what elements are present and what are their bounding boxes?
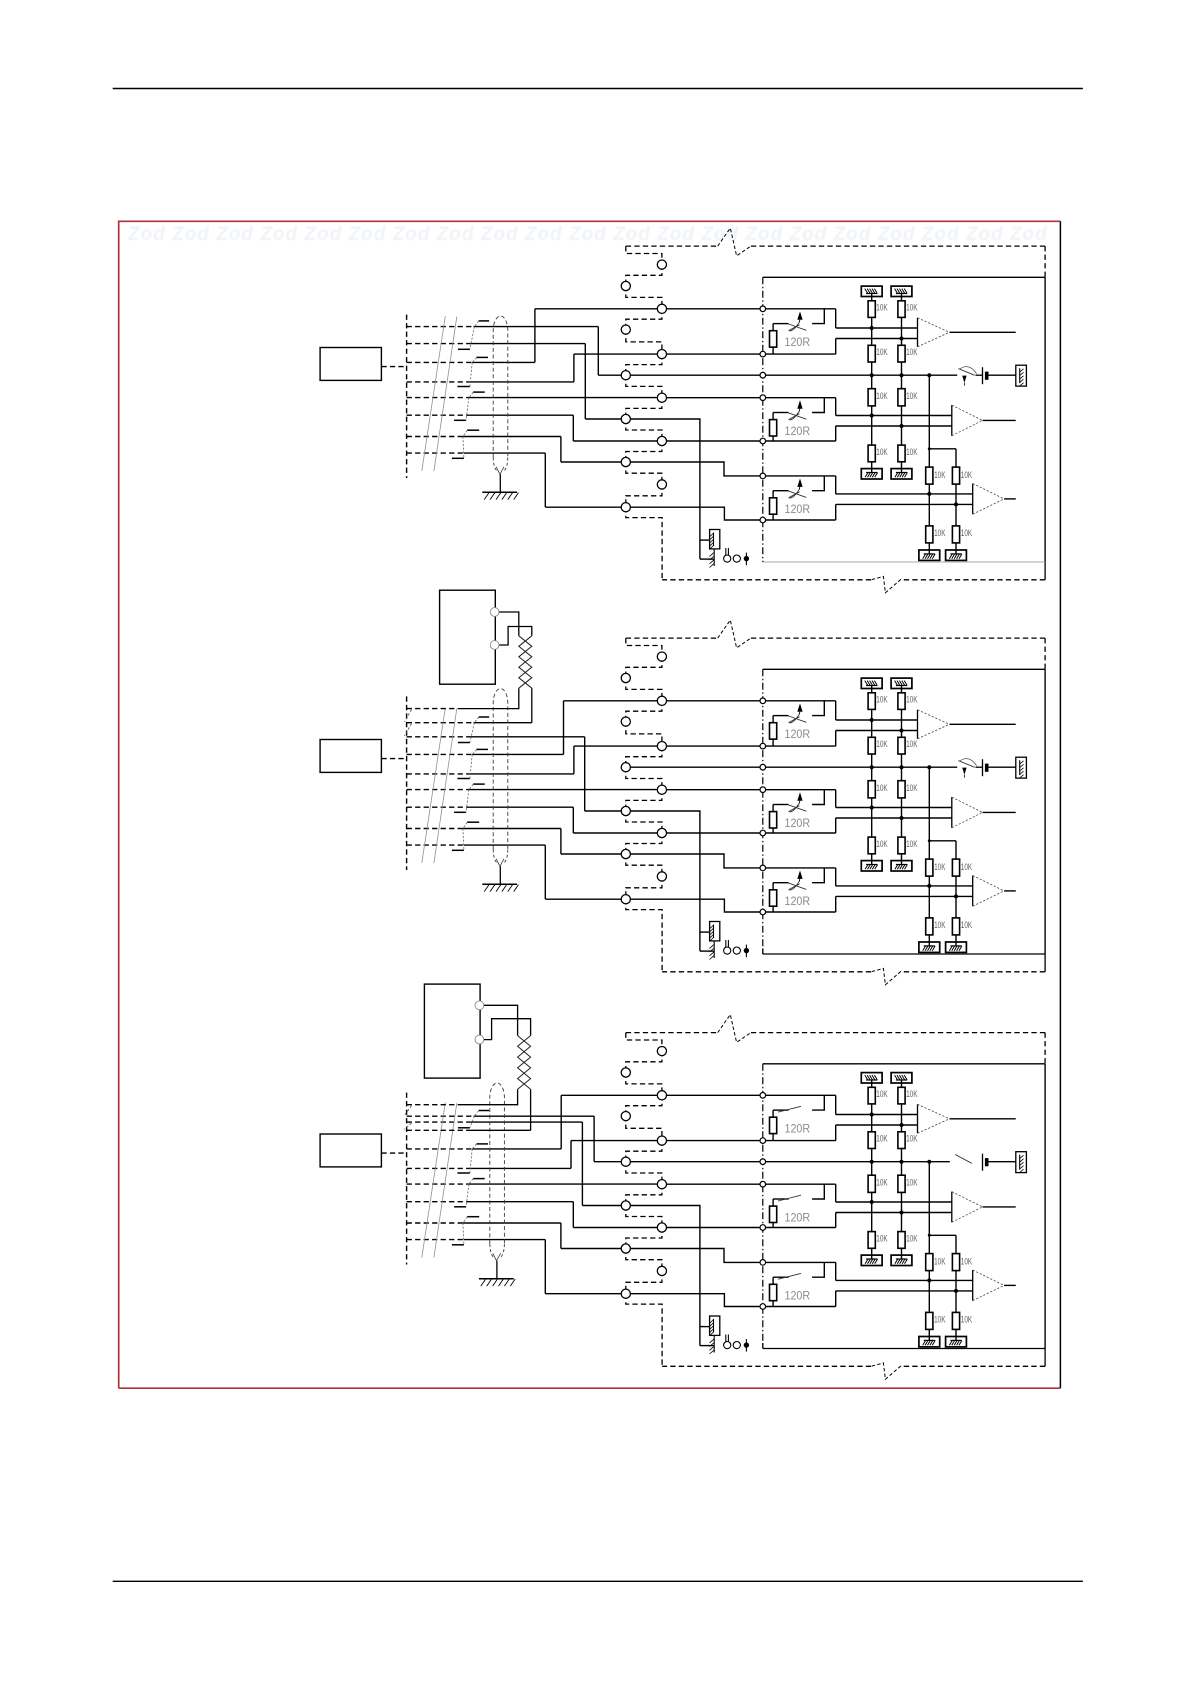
protective earth electrode [713,549,715,567]
wire pin R1 to receiver [666,1094,836,1096]
resistor 10K b [868,1132,875,1149]
wire w4 from connector [407,381,471,383]
ground [891,861,912,871]
wire w1 from connector [407,722,474,724]
receiver input circles [760,698,766,704]
terminator 120R unit 2 [812,790,824,805]
connector contact pair 3 [473,1178,485,1180]
wire w4 from connector [407,1167,471,1169]
terminator 120R unit 1 [812,309,824,324]
switch blade 120R 1 [789,324,807,330]
connection point (black) [745,945,747,958]
svg-text:10K: 10K [961,920,973,930]
svg-text:120R: 120R [785,816,811,830]
svg-text:10K: 10K [876,1234,888,1244]
top rule [113,88,1083,90]
wire w3 from connector [407,361,473,363]
frame ground box [1016,1152,1027,1173]
resistor 10K c [868,1175,875,1192]
signal ground wire (middle) [630,766,957,768]
chassis ground box (shield) [700,539,710,541]
signal ground wire (middle) [630,374,957,376]
terminator 120R unit 2 [812,398,824,413]
switch blade 120R 3 [778,1273,801,1279]
op-amp A [917,318,919,347]
resistor 10K e [955,449,957,467]
switch blade 120R 2 [789,413,807,419]
wire pin L3 to shield assembly [630,811,700,951]
resistor 120R 3 [770,1284,777,1300]
resistor 10K d [868,445,875,462]
resistor 120R 2 [770,1206,777,1222]
svg-text:10K: 10K [961,528,973,538]
resistor 120R 3 [770,890,777,906]
wire w6 from connector [407,414,467,416]
op-amp A [917,710,919,739]
wire w3 from connector [407,753,473,755]
terminator 120R unit 2 [812,1184,824,1199]
terminator 120R unit 3 [812,1262,824,1277]
svg-text:10K: 10K [876,739,888,749]
connection point (black) [745,1339,747,1352]
pull-up rail symbol [891,1073,912,1083]
resistor 10K d [898,837,905,854]
terminal circle 2 [733,555,740,562]
svg-text:10K: 10K [876,303,888,313]
svg-text:10K: 10K [876,1089,888,1099]
svg-text:10K: 10K [876,347,888,357]
svg-text:10K: 10K [906,303,918,313]
ground [861,1255,882,1265]
interface dashed border right [1044,638,1046,669]
resistor 10K a [868,693,875,710]
wire w6 from connector [407,1201,467,1203]
amp3 input wires [836,493,973,495]
wire w8 from connector [407,452,464,454]
resistor 10K b [898,345,905,362]
twisted pair leads [484,1005,518,1035]
resistor 120R 2 [770,420,777,436]
wire pin R2 to receiver [666,353,836,355]
wire pin L3 to shield assembly [630,419,700,559]
interface dashed border bottom [902,579,1045,581]
shield ground [496,1261,498,1279]
interface dashed border right [1044,246,1046,277]
ground [919,550,940,560]
switch blade 120R 2 [778,1195,801,1201]
wire w6 from connector [407,806,467,808]
wire w8 from connector [407,1239,464,1241]
protective earth electrode [713,941,715,959]
op-amp B [951,405,953,436]
svg-text:10K: 10K [906,1178,918,1188]
svg-text:120R: 120R [785,1210,811,1224]
resistor 10K e [928,1235,930,1253]
svg-text:10K: 10K [961,862,973,872]
svg-text:10K: 10K [876,695,888,705]
connector pin chain (dashed) [626,1033,662,1052]
connector boundary (dashed vertical) [406,1093,408,1265]
chassis ground box (shield) [700,1326,710,1328]
switch blade 120R 3 [789,491,807,497]
amp3 input wires [836,885,973,887]
interface dashed border right [1044,1033,1046,1064]
resistor 10K f [952,526,959,543]
divider branch from signal ground [928,375,930,449]
svg-text:120R: 120R [785,1122,811,1136]
terminal circle 2 [733,947,740,954]
resistor 10K c [898,389,905,406]
connector boundary (dashed vertical) [406,315,408,478]
wire pin L5 to receiver [630,1294,836,1307]
wire pin R2 to receiver [666,1140,836,1142]
receiver box [763,276,1045,278]
dashed lead from encoder box to connector [381,1152,406,1154]
svg-text:10K: 10K [906,839,918,849]
resistor 10K d [868,1232,875,1249]
frame ground box [1016,365,1027,386]
frame-ground switch [958,761,974,768]
switch blade 120R 3 [789,883,807,889]
svg-text:10K: 10K [876,391,888,401]
resistor 10K f [952,1312,959,1329]
ground [946,550,967,560]
svg-text:10K: 10K [906,739,918,749]
cable shield oval [493,316,508,457]
resistor 10K b [868,345,875,362]
connector contact pair 1 [479,320,489,322]
op-amp B [951,797,953,828]
svg-text:120R: 120R [785,894,811,908]
source terminal 2 [475,1035,484,1044]
pulse source box [424,984,480,1078]
svg-text:10K: 10K [906,1234,918,1244]
amp2 input wires [836,807,952,809]
svg-text:10K: 10K [906,347,918,357]
connector contact pair 1 [479,1110,489,1112]
battery / capacitor symbol [982,759,984,776]
double-bar ground mark [725,940,727,951]
receiver input circles [760,306,766,312]
terminal circle 1 [724,555,731,562]
junction dots ladder [870,1113,874,1117]
svg-text:10K: 10K [961,1315,973,1325]
svg-text:120R: 120R [785,1289,811,1303]
amp2 input wires [836,415,952,417]
terminal circle 1 [724,1342,731,1349]
cable shield oval [493,689,508,850]
resistor 10K c [898,1175,905,1192]
resistor 10K d [898,445,905,462]
wire pin R2 to receiver [666,745,836,747]
frame ground box [1016,757,1027,778]
pull-up rail symbol [891,286,912,296]
wire w1 from connector [407,326,474,328]
svg-text:120R: 120R [785,727,811,741]
wire pin R1 to receiver [666,308,836,310]
resistor 10K c [898,781,905,798]
frame-ground switch [955,1155,972,1164]
wire pin R3 to receiver [666,789,836,791]
wire pin L4 to receiver [630,1249,836,1263]
ground [946,942,967,952]
terminal circle 2 [733,1342,740,1349]
connector contact pair 4 [467,821,479,823]
wire pin R3 to receiver [666,397,836,399]
resistor 120R 1 [770,331,777,347]
connector boundary (dashed vertical) [406,696,408,870]
double-bar ground mark [725,548,727,559]
svg-text:10K: 10K [906,1134,918,1144]
ground [861,861,882,871]
cable slash marks [422,316,446,471]
amp1 input wires [836,327,918,329]
resistor 10K e [955,841,957,859]
svg-text:10K: 10K [961,470,973,480]
resistor 10K a [868,1087,875,1104]
pin circles [657,652,666,661]
frame right edge [1059,221,1061,1388]
resistor 10K b [898,737,905,754]
pair lead to row A [458,1089,518,1104]
cable slash marks [422,708,446,863]
switch blade 120R 1 [778,1106,801,1112]
resistor 10K e [955,1235,957,1253]
svg-text:120R: 120R [785,424,811,438]
connector contact pair 2 [477,1143,489,1145]
svg-text:10K: 10K [906,391,918,401]
wire pin R1 to receiver [666,700,836,702]
connector contact pair 3 [473,391,485,393]
source terminal 2 [490,641,499,650]
wire w5 from connector [407,789,469,791]
pair lead to row B [531,688,533,723]
svg-text:10K: 10K [961,1257,973,1267]
encoder box (block dy=0) [320,348,381,381]
resistor 120R 1 [770,723,777,739]
ground [919,942,940,952]
ground [946,1337,967,1347]
svg-text:10K: 10K [934,920,946,930]
switch blade 120R 2 [789,805,807,811]
svg-text:10K: 10K [876,1178,888,1188]
interface dashed border top [626,1032,718,1034]
battery / capacitor symbol [982,367,984,384]
op-amp Z [972,876,974,907]
connector contact pair 3 [473,783,485,785]
encoder box (block dy=392) [320,740,381,773]
amp3 input wires [836,1279,973,1281]
resistor 10K c [868,389,875,406]
interface dashed border top [626,637,718,639]
bottom rule [113,1580,1083,1582]
receiver box [763,668,1045,670]
connector pin chain (dashed) [626,246,662,265]
pair lead to row B [530,1089,532,1130]
wire w8 from connector [407,844,464,846]
resistor 10K f [952,918,959,935]
wire pin R4 to receiver [666,1227,836,1229]
amp1 input wires [836,1114,918,1116]
wire w3 from connector [407,1148,473,1150]
divider branch from signal ground [928,767,930,841]
row jog marks [405,710,412,722]
resistor 10K a [898,301,905,318]
ground [891,469,912,479]
ground [919,1337,940,1347]
amp1 input wires [836,719,918,721]
connector contact pair 4 [467,429,479,431]
resistor 10K a [898,1087,905,1104]
svg-text:10K: 10K [906,695,918,705]
resistor 10K a [898,693,905,710]
pin circles [657,1047,666,1056]
red frame [119,221,1061,1388]
interface dashed border bottom [902,1365,1045,1367]
wire pin L5 to receiver [630,899,836,912]
svg-text:10K: 10K [906,447,918,457]
protective earth electrode [713,1335,715,1353]
ground [861,469,882,479]
svg-text:10K: 10K [906,1089,918,1099]
terminator 120R unit 1 [812,701,824,716]
svg-text:10K: 10K [934,1315,946,1325]
pulse source box [440,590,496,684]
interface dashed border top [626,245,718,247]
svg-text:10K: 10K [876,839,888,849]
resistor 10K f [926,1312,933,1329]
source terminal 1 [490,608,499,617]
encoder box (block dy=786.5) [320,1134,381,1167]
svg-text:10K: 10K [934,862,946,872]
interface dashed border bottom [902,971,1045,973]
signal ground wire (middle) [630,1161,950,1163]
wire pin R3 to receiver [666,1183,836,1185]
wire w1 from connector [407,1115,474,1117]
receiver input circles [760,1093,766,1099]
op-amp A [917,1104,919,1133]
resistor 120R 1 [770,1117,777,1133]
op-amp Z [972,484,974,515]
wire w7 from connector [407,828,463,830]
resistor 10K b [898,1132,905,1149]
svg-text:10K: 10K [876,447,888,457]
connector pin chain (dashed) [626,638,662,657]
wire w2 from connector [407,343,471,345]
connector contact pair 1 [479,716,489,718]
wire pin L4 to receiver [630,854,836,868]
svg-text:10K: 10K [876,1134,888,1144]
svg-text:10K: 10K [934,470,946,480]
source terminal 1 [475,1001,484,1010]
svg-text:10K: 10K [934,528,946,538]
connector contact pair 2 [477,356,489,358]
dashed lead from encoder box to connector [381,758,406,760]
svg-text:10K: 10K [934,1257,946,1267]
amp2 input wires [836,1201,952,1203]
pull-up rail symbol [861,1073,882,1083]
dashed lead from encoder box to connector [381,366,406,368]
battery / capacitor symbol [982,1154,984,1171]
wire pin L5 to receiver [630,507,836,520]
pull-up rail symbol [861,286,882,296]
twisted pair leads [499,612,519,636]
wire w4 from connector [407,773,471,775]
wire pin R4 to receiver [666,832,836,834]
twisted pair [518,1036,531,1090]
junction dots ladder [870,718,874,722]
resistor 10K d [868,837,875,854]
switch blade 120R 1 [789,716,807,722]
resistor 10K f [926,918,933,935]
chassis ground box (shield) [700,931,710,933]
connector contact pair 4 [467,1216,479,1218]
wire w5 from connector [407,397,469,399]
resistor 120R 3 [770,498,777,514]
resistor 10K c [868,781,875,798]
wire w2 from connector [407,736,471,738]
resistor 10K a [868,301,875,318]
junction dots ladder [870,326,874,330]
op-amp B [951,1192,953,1223]
frame-ground switch [958,369,974,376]
connector contact pair 2 [477,748,489,750]
resistor 120R 2 [770,812,777,828]
divider branch from signal ground [928,1162,930,1236]
shield ground [499,474,501,492]
svg-text:120R: 120R [785,335,811,349]
row jog marks [405,1106,412,1116]
svg-text:10K: 10K [906,783,918,793]
pin circles [657,260,666,269]
pull-up rail symbol [861,678,882,688]
terminal circle 1 [724,947,731,954]
resistor 10K e [928,841,930,859]
terminator 120R unit 3 [812,476,824,491]
wire w7 from connector [407,1222,463,1224]
shield ground [499,866,501,884]
wire w7 from connector [407,436,463,438]
receiver box [763,1063,1045,1065]
twisted pair [519,636,532,688]
wire pin L3 to shield assembly [630,1206,700,1346]
resistor 10K d [898,1232,905,1249]
terminator 120R unit 3 [812,868,824,883]
cable shield oval [490,1083,505,1244]
svg-text:10K: 10K [876,783,888,793]
op-amp Z [972,1270,974,1301]
resistor 10K b [868,737,875,754]
resistor 10K f [926,526,933,543]
wire pin R4 to receiver [666,440,836,442]
ground [891,1255,912,1265]
resistor 10K e [928,449,930,467]
svg-text:120R: 120R [785,502,811,516]
pull-up rail symbol [891,678,912,688]
wire w5 from connector [407,1183,469,1185]
cable slash marks [422,1103,446,1258]
double-bar ground mark [725,1335,727,1346]
terminator 120R unit 1 [812,1095,824,1110]
connection point (black) [745,553,747,566]
wire w2 from connector [407,1121,471,1123]
wire pin L4 to receiver [630,462,836,476]
pair lead to row A [458,688,519,708]
watermark strip [128,224,1054,244]
